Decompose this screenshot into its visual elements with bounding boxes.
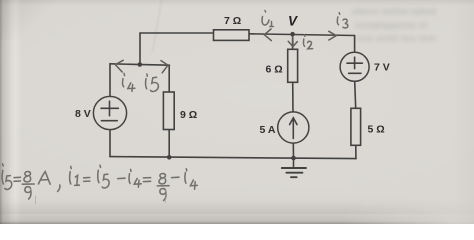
node dot ground junction [291, 156, 296, 161]
wire 6ohm to 5A [292, 82, 294, 112]
wire node V to 6ohm [292, 34, 294, 49]
handwritten current labels (pencil strokes) [123, 11, 348, 92]
wire 7V to 5ohm [355, 81, 356, 108]
eq i5b [99, 165, 102, 167]
svg-text:V: V [288, 14, 298, 29]
eq fraction 8/9 [24, 172, 31, 182]
eq A [38, 172, 50, 185]
eq = [84, 178, 90, 182]
resistor R 9ohm [163, 92, 174, 130]
node dot 9ohm bottom [167, 155, 172, 160]
label i4 [123, 73, 125, 75]
eq comma [58, 185, 60, 191]
wire left-top vertical [139, 33, 141, 65]
resistor R 6ohm [288, 49, 298, 82]
eq = [14, 177, 20, 181]
ground [282, 168, 306, 177]
resistor R 5ohm [351, 108, 361, 145]
wire top-mid horizontal [249, 34, 355, 36]
wire top-left horizontal [140, 32, 214, 34]
svg-text:7 Ω: 7 Ω [224, 15, 241, 27]
wire top-right vertical [354, 36, 356, 53]
node dot top-left T [138, 62, 143, 67]
faint bleed-through text top right [352, 5, 470, 51]
wire left branch lower [109, 130, 111, 157]
eq i5 [2, 164, 5, 166]
label i1 [264, 11, 267, 13]
wire 5A to bottom [292, 143, 294, 158]
eq i1 [70, 166, 73, 168]
label i2 [303, 35, 306, 37]
label i3 [338, 13, 341, 15]
wire left branch upper [109, 64, 111, 97]
arrowhead i5 (right on T wire) [161, 61, 168, 73]
svg-text:8 V: 8 V [75, 108, 91, 120]
svg-text:6 Ω: 6 Ω [266, 64, 283, 76]
wire 9ohm upper [168, 65, 170, 92]
label i5 [146, 74, 148, 76]
eq fraction2 8/9 [159, 174, 166, 184]
faint stray marks [36, 194, 166, 205]
arrowhead i3 (right) [329, 31, 337, 40]
eq minus [172, 176, 179, 178]
wire T horizontal [110, 64, 169, 65]
resistor R 7ohm [214, 30, 250, 41]
eq = [143, 178, 150, 182]
eq minus [118, 177, 125, 179]
wire 5ohm lower [355, 145, 357, 158]
node dot V [290, 32, 295, 37]
arrowhead i1 (left) [264, 29, 271, 41]
voltage source V2 7V [340, 52, 369, 81]
eq i4 [130, 169, 132, 171]
arrow i2 (down from node V) [292, 37, 294, 46]
handwritten arrowheads (pencil) [115, 29, 336, 73]
arrowhead i4 (left on T wire) [115, 60, 123, 72]
svg-text:5 Ω: 5 Ω [368, 124, 385, 136]
svg-text:7 V: 7 V [374, 62, 390, 74]
ground stub [293, 158, 295, 168]
wire bottom [110, 157, 356, 159]
current source I1 5A [278, 112, 309, 143]
wire 9ohm lower [168, 130, 170, 158]
voltage source V1 8V [93, 96, 126, 129]
handwritten equation (pencil) [2, 164, 197, 201]
svg-text:9 Ω: 9 Ω [180, 109, 197, 121]
svg-text:5 A: 5 A [260, 124, 276, 136]
eq i4b [185, 169, 187, 171]
